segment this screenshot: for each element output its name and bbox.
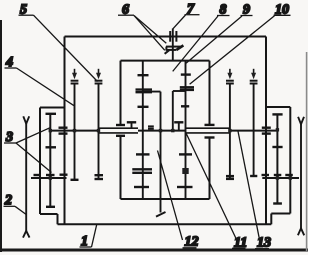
- pinion T1 stem: [131, 122, 133, 128]
- label 10 leader: [190, 16, 275, 84]
- label 5 underline: [19, 14, 34, 16]
- right lay shaft bearing bar c: [285, 174, 293, 176]
- shaft A clutch bar upper: [136, 88, 153, 90]
- shaft B gear bar 1: [181, 73, 191, 75]
- pinion T2 cap: [174, 121, 183, 123]
- shift rod 4 arrow: [250, 69, 258, 84]
- wall bearing bars right lower: [262, 132, 271, 134]
- label 13 leader: [238, 131, 260, 241]
- junction dot right column lay: [276, 176, 279, 179]
- inner box left edge lower cap: [116, 135, 125, 137]
- label 6 leader a: [134, 16, 166, 44]
- shift rod 3 arrow: [226, 69, 234, 84]
- inner box right edge lower: [209, 138, 211, 200]
- bevel symbol bar1: [166, 46, 182, 48]
- right bracket top: [173, 90, 186, 92]
- small bars near left leg lower: [148, 128, 154, 130]
- right belt bottom chevron: [298, 228, 304, 235]
- label 12 underline: [183, 247, 197, 249]
- left lay shaft bearing bar b: [46, 174, 55, 176]
- main shaft segment left: [50, 130, 99, 132]
- G1 mid cap: [46, 146, 57, 148]
- outer housing bottom edge: [58, 223, 272, 225]
- scan border right: [306, 52, 308, 252]
- left bearing housing top edge: [40, 107, 65, 109]
- left belt top chevron: [23, 116, 29, 123]
- right lay shaft line: [262, 177, 299, 179]
- right bracket leg: [172, 91, 174, 131]
- junction dot rod1 main: [73, 129, 76, 132]
- label 11 leader: [186, 133, 237, 240]
- left belt bottom chevron: [23, 231, 30, 238]
- main shaft segment middle: [138, 130, 186, 132]
- left lay shaft bearing bar a: [34, 174, 42, 176]
- shift rod 3 bottom cap upper: [226, 175, 234, 177]
- wall bearing bars left upper: [59, 126, 68, 128]
- shift rod 1 bottom cap: [71, 179, 79, 181]
- main shaft segment right: [230, 130, 278, 132]
- shift rod 3 stem: [229, 85, 231, 179]
- outer housing top edge: [65, 36, 267, 38]
- shift rod 3 bottom cap lower: [226, 178, 234, 180]
- label 10 underline: [274, 14, 291, 16]
- label 1 underline: [80, 246, 92, 248]
- shaft A: [142, 61, 144, 199]
- shift rod 1 arrow: [71, 69, 79, 84]
- left bracket foot slash: [156, 212, 166, 217]
- label 3 leader upper: [16, 128, 50, 143]
- pinion T1 cap: [127, 121, 136, 123]
- shaft A gear bar 1: [138, 74, 149, 76]
- label 2 underline: [4, 205, 16, 207]
- wall bearing bars right upper: [262, 126, 271, 128]
- junction dot right leg main: [171, 129, 174, 132]
- shift rod 4 bottom cap: [250, 175, 257, 177]
- scan border bottom: [0, 249, 308, 252]
- label 13 underline: [255, 248, 269, 250]
- main shaft sleeve left lower: [99, 132, 139, 134]
- right bearing housing bottom edge: [271, 213, 290, 215]
- label 12 leader: [158, 151, 183, 241]
- bevel symbol arrow stroke: [176, 45, 183, 50]
- shaft A lower clutch bar upper: [132, 168, 152, 170]
- inner box left edge lower: [120, 136, 122, 199]
- inner box right edge upper: [209, 61, 211, 125]
- main shaft sleeve left upper: [99, 127, 139, 129]
- left lay shaft bearing bar c: [60, 173, 68, 175]
- coupling right bar: [175, 31, 177, 42]
- label 4 leader: [17, 68, 75, 106]
- shaft B clutch bar upper: [180, 86, 194, 88]
- junction dot right rect edge lay: [289, 176, 292, 179]
- left bearing housing step: [57, 214, 59, 224]
- inner box left edge upper: [120, 61, 122, 125]
- bevel symbol left tick: [165, 47, 167, 51]
- shift rod 2 stem: [98, 85, 100, 180]
- shift rod 2 arrow: [95, 69, 103, 84]
- left bearing housing left edge: [39, 108, 41, 215]
- right lay shaft bearing bar a: [262, 174, 270, 176]
- junction dot G1 main: [49, 129, 52, 132]
- shaft A clutch bar lower: [136, 91, 153, 93]
- label 4 underline: [5, 67, 17, 69]
- inner box bottom edge: [121, 198, 210, 200]
- outer housing right edge: [265, 37, 267, 225]
- right bearing housing right edge: [289, 107, 291, 214]
- left bracket leg: [160, 92, 162, 213]
- junction dot rod2 main: [97, 129, 100, 132]
- label 5 leader: [34, 15, 98, 81]
- label 8 leader: [173, 16, 218, 71]
- input shaft vertical: [172, 29, 174, 61]
- label 7 underline: [185, 14, 200, 16]
- label 6 underline: [118, 14, 134, 16]
- left gear column G1 shaft: [49, 114, 51, 207]
- label 3 underline: [4, 142, 16, 144]
- junction dot G1 lay: [49, 176, 52, 179]
- shaft B: [185, 61, 187, 199]
- shaft A bottom cap: [134, 186, 149, 188]
- right gear column top cap: [272, 113, 282, 115]
- shaft A lower clutch bar lower: [132, 172, 152, 174]
- right gear column shaft: [276, 114, 278, 203]
- right bearing housing step: [270, 214, 272, 225]
- junction dot rod3 main: [228, 129, 231, 132]
- G1 bottom cap: [46, 206, 55, 208]
- right gear column mid cap: [272, 146, 282, 148]
- label 3 leader lower: [16, 143, 52, 173]
- right lay shaft bearing bar b: [274, 174, 282, 176]
- bevel symbol lower tick: [165, 50, 170, 54]
- shift rod 2 bottom cap upper: [95, 174, 104, 176]
- label 9 leader: [186, 16, 242, 63]
- G1 top cap: [46, 113, 57, 115]
- label 1 leader: [92, 225, 97, 247]
- small bars near left leg upper: [148, 125, 154, 127]
- shaft B gear bar 3: [179, 153, 192, 155]
- inner box top edge: [121, 60, 210, 62]
- junction dot right column main: [276, 128, 279, 131]
- right belt top chevron: [298, 117, 304, 124]
- inner box right edge upper cap: [205, 124, 215, 126]
- coupling left bar: [169, 31, 171, 42]
- left lay shaft line: [31, 177, 67, 179]
- wall bearing bars left lower: [59, 132, 68, 134]
- left bearing housing bottom edge: [40, 213, 58, 215]
- shift rod 1 stem: [74, 85, 76, 180]
- right belt line: [300, 124, 302, 229]
- junction dot left leg main: [159, 129, 162, 132]
- outer housing left edge: [64, 37, 66, 225]
- label 6 leader b: [134, 16, 165, 51]
- label 11 underline: [232, 247, 246, 249]
- shaft B gear bar 2: [181, 105, 189, 107]
- label 2 leader: [15, 206, 26, 214]
- pinion T2 stem: [178, 122, 180, 130]
- bevel symbol bar2: [166, 49, 176, 51]
- shaft B slide block: [182, 168, 188, 174]
- main shaft sleeve right lower: [186, 132, 230, 134]
- shift rod 2 bottom cap lower: [95, 178, 104, 180]
- label 7 leader: [173, 15, 186, 29]
- shaft B clutch bar lower: [180, 89, 194, 91]
- shaft A gear bar 3: [136, 153, 150, 155]
- left belt line: [25, 124, 27, 232]
- inner box left edge upper cap: [116, 124, 125, 126]
- main shaft sleeve right upper: [186, 127, 230, 129]
- inner box right edge lower cap: [205, 136, 215, 138]
- right gear column bottom cap: [273, 202, 282, 204]
- scan border left: [0, 20, 2, 252]
- right bearing housing top edge: [266, 106, 290, 108]
- shaft B bottom cap: [177, 186, 193, 188]
- left bracket top: [143, 91, 161, 93]
- shaft A gear bar 2: [138, 106, 149, 108]
- label 8 underline: [217, 15, 230, 17]
- label 9 underline: [241, 15, 253, 17]
- shift rod 4 stem: [253, 85, 255, 177]
